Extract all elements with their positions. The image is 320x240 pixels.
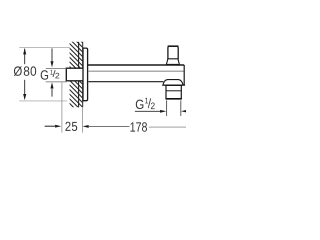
inlet thread ext bottom — [46, 81, 67, 83]
wall herringbone spine — [78, 42, 80, 108]
dim 178 left arrowhead — [83, 125, 89, 128]
dim G1/2 inlet up arrow — [50, 82, 53, 88]
spout end dome — [163, 80, 183, 86]
outlet leader arrowhead — [160, 110, 166, 113]
nut bottom edge — [166, 98, 182, 100]
extension line top (flange top, Ø80) — [19, 47, 69, 49]
outlet extension line left — [166, 100, 168, 116]
dome base line — [163, 84, 185, 86]
label 25 — [65, 122, 77, 131]
inlet thread box G1/2 — [66, 68, 83, 81]
spout tube top line — [88, 64, 184, 66]
dim 178 line left segment — [89, 125, 130, 127]
escutcheon flange Ø80 — [83, 48, 88, 101]
wall face line — [82, 42, 84, 108]
label dia 80 — [14, 66, 36, 76]
dim 25 ext line right (wall face) — [81, 107, 83, 132]
label G 1/2 inlet — [41, 70, 60, 80]
outlet extension line right — [180, 100, 182, 116]
dim Ø80 lower arrowhead — [23, 94, 26, 100]
label G 1/2 outlet — [136, 98, 155, 109]
label 178 — [131, 122, 147, 131]
dim Ø80 upper line — [24, 49, 26, 65]
dim 25 ext line left — [61, 82, 63, 132]
dim 178 line right segment — [149, 126, 186, 128]
wall hatching — [0, 32, 156, 112]
outlet right arrowhead — [181, 110, 187, 113]
spout tube right end — [183, 65, 185, 85]
dim Ø80 lower line — [24, 80, 26, 94]
dim G1/2 inlet down arrow — [51, 48, 53, 61]
inlet thread ext top — [46, 68, 67, 70]
dim Ø80 upper arrowhead — [23, 48, 26, 54]
knob flare base — [166, 59, 179, 65]
outlet nut — [166, 85, 181, 98]
extension line bottom (flange bottom, Ø80) — [19, 100, 67, 102]
spout tube bottom line — [88, 81, 163, 83]
outlet leader line — [135, 110, 161, 112]
nut groove — [166, 90, 181, 92]
spout tube highlight line — [88, 70, 184, 72]
dim 25 left arrow — [45, 125, 56, 127]
diverter knob — [168, 46, 178, 60]
